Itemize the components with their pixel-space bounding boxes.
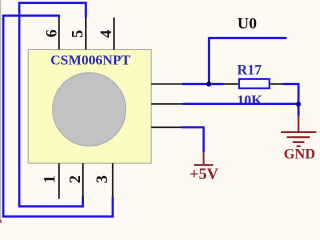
wire net pin5 to pin2 loop [19, 3, 86, 207]
component U0 CSM006NPT body [28, 50, 151, 164]
wire net pin6 to pin3 loop [3, 16, 112, 217]
ground GND symbol [281, 116, 316, 147]
resistor R17 body [239, 79, 269, 88]
svg-text:10K: 10K [237, 93, 263, 109]
pin 5 [85, 18, 87, 50]
wire gnd node down stub [297, 104, 299, 116]
svg-text:2: 2 [67, 175, 84, 183]
sheet corner mark [0, 220, 1, 223]
wire pinB to gnd node [183, 103, 299, 105]
pin 3 [112, 163, 114, 197]
svg-text:GND: GND [284, 147, 316, 163]
pin 2 [82, 163, 84, 197]
pin 4 [113, 18, 115, 50]
svg-text:+5V: +5V [189, 165, 218, 183]
pin 6 [58, 18, 60, 50]
svg-text:1: 1 [42, 175, 59, 183]
right pin A (to R17 / U0 net) [151, 83, 182, 85]
svg-text:4: 4 [98, 30, 115, 38]
power +5V symbol [194, 152, 213, 165]
wire pinC to +5V [182, 127, 204, 152]
svg-text:U0: U0 [237, 16, 257, 33]
right pin C (to +5V) [151, 126, 181, 128]
svg-text:3: 3 [94, 175, 111, 183]
svg-text:5: 5 [70, 30, 87, 38]
svg-text:R17: R17 [237, 63, 262, 79]
wire net U0 [209, 38, 287, 84]
svg-text:6: 6 [44, 29, 61, 37]
svg-text:CSM006NPT: CSM006NPT [50, 53, 131, 68]
microphone circle [53, 73, 126, 146]
pin 1 [58, 163, 60, 199]
resistor R17 right lead [270, 83, 283, 85]
junction dot at U0 tap [206, 82, 211, 87]
resistor R17 left lead [224, 83, 239, 85]
sheet left edge line [0, 0, 1, 223]
junction dot at gnd node [296, 102, 301, 107]
wire resistor right to gnd node [283, 84, 299, 103]
right pin B (to GND net) [151, 103, 182, 105]
wire pinA to resistor left lead [182, 83, 224, 85]
